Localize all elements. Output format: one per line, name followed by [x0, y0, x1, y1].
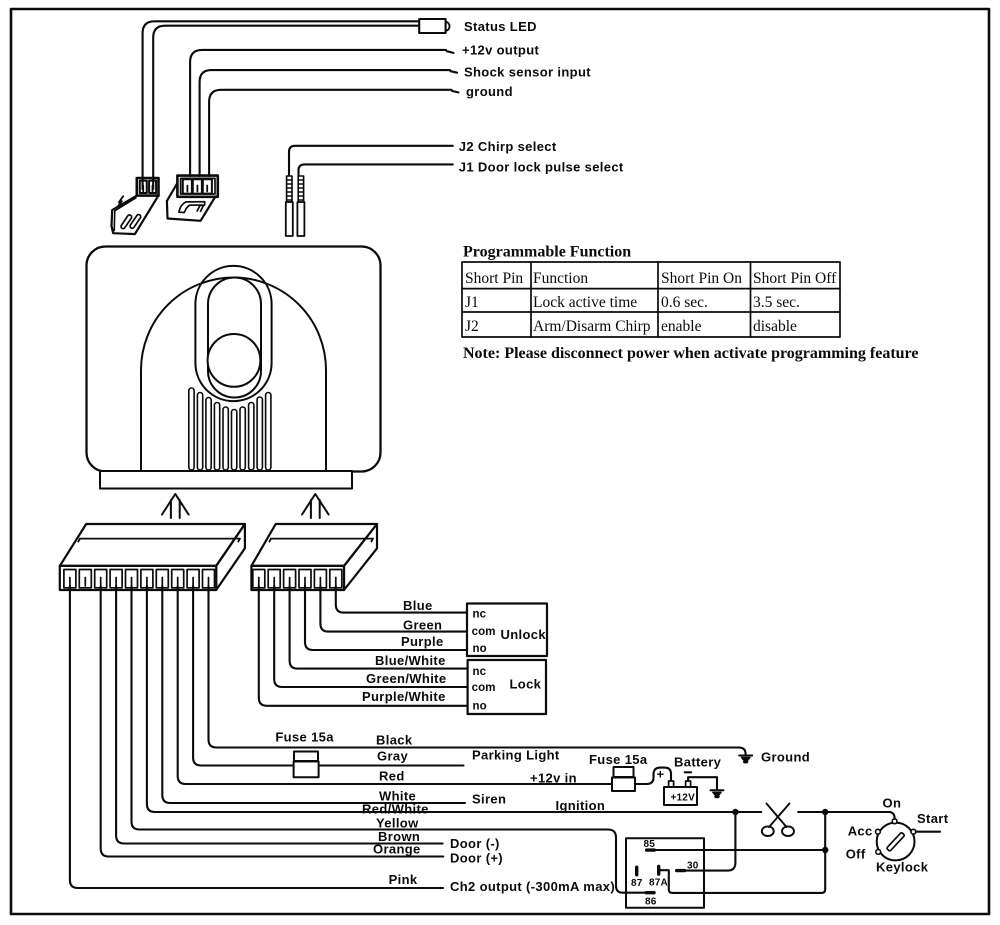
svg-text:J2: J2	[465, 318, 479, 335]
svg-text:Ignition: Ignition	[556, 798, 606, 813]
wire J2 select	[289, 146, 453, 175]
siren band inner edge	[208, 278, 261, 398]
relay box Unlock	[467, 604, 547, 657]
wire battery negative	[688, 777, 717, 790]
connector block CN2 6-pin	[251, 524, 377, 590]
svg-text:Lock: Lock	[510, 676, 542, 691]
svg-text:Unlock: Unlock	[501, 627, 547, 642]
svg-text:Note: Please disconnect power: Note: Please disconnect power when activ…	[463, 345, 918, 362]
svg-text:Short Pin: Short Pin	[465, 270, 523, 287]
wire 30 to ignition	[686, 812, 735, 871]
wire black	[209, 586, 746, 755]
wire blue	[336, 586, 467, 613]
svg-text:nc: nc	[473, 609, 487, 621]
svg-text:J1 Door lock pulse select: J1 Door lock pulse select	[459, 160, 624, 175]
wire J1 select	[299, 164, 453, 175]
svg-text:Status LED: Status LED	[464, 19, 537, 34]
connector P2 3-pin plug	[167, 176, 218, 221]
svg-text:Function: Function	[533, 270, 588, 287]
siren unit housing	[87, 247, 381, 472]
relay box main	[626, 838, 704, 908]
siren grill stripes	[189, 388, 271, 470]
fuse F2 15a	[612, 767, 635, 791]
wire ground lead	[209, 90, 458, 176]
svg-text:J1: J1	[465, 294, 479, 311]
battery 12V	[664, 781, 697, 805]
wire white	[162, 586, 465, 803]
svg-text:Blue: Blue	[403, 598, 433, 613]
wire blue/white	[290, 586, 468, 669]
svg-text:Ch2 output (-300mA max): Ch2 output (-300mA max)	[450, 879, 615, 894]
wire 85 to junction	[656, 849, 825, 851]
svg-text:Siren: Siren	[472, 792, 506, 807]
siren base bar	[100, 471, 352, 489]
svg-text:Green/White: Green/White	[366, 671, 446, 686]
svg-text:Battery: Battery	[674, 755, 722, 770]
svg-text:Purple/White: Purple/White	[362, 689, 446, 704]
svg-text:Short Pin Off: Short Pin Off	[753, 270, 837, 287]
connector P1 2-pin plug	[112, 178, 159, 234]
siren band outer edge	[195, 266, 271, 401]
relay pin 87A	[657, 865, 660, 876]
svg-text:nc: nc	[473, 666, 487, 678]
svg-text:Keylock: Keylock	[876, 860, 929, 875]
svg-text:+12v in: +12v in	[530, 771, 577, 786]
wire yellow	[132, 586, 646, 893]
wire 87A stub	[661, 869, 669, 871]
svg-text:Start: Start	[917, 811, 949, 826]
svg-text:Parking Light: Parking Light	[472, 748, 560, 763]
svg-text:Black: Black	[376, 733, 413, 748]
svg-text:Gray: Gray	[377, 749, 408, 764]
svg-text:Orange: Orange	[373, 842, 421, 857]
svg-text:87: 87	[631, 878, 643, 889]
wire gray	[193, 586, 463, 766]
relay pin 86	[645, 891, 656, 894]
svg-text:Pink: Pink	[389, 872, 418, 887]
svg-text:Programmable Function: Programmable Function	[463, 244, 631, 261]
svg-text:no: no	[473, 701, 487, 713]
svg-text:com: com	[472, 626, 496, 638]
svg-text:30: 30	[687, 861, 699, 872]
relay pin 30	[675, 869, 686, 872]
svg-text:Door (+): Door (+)	[450, 851, 503, 866]
arrow right	[302, 494, 329, 518]
svg-text:87A: 87A	[649, 878, 668, 889]
junction dot 85	[822, 847, 828, 853]
svg-text:Shock sensor input: Shock sensor input	[464, 65, 591, 80]
svg-text:85: 85	[644, 839, 656, 850]
relay pin 87	[635, 866, 638, 877]
wire status LED cathode	[153, 26, 419, 189]
wire green/white	[274, 586, 467, 687]
svg-text:Off: Off	[846, 847, 866, 862]
svg-text:Acc: Acc	[848, 824, 873, 839]
siren speaker circle	[208, 334, 261, 387]
wire ignition to keylock	[798, 812, 894, 819]
wire status LED anode	[143, 21, 420, 189]
svg-text:Short Pin On: Short Pin On	[661, 270, 742, 287]
wire red/white ignition	[147, 586, 761, 812]
ground symbol main	[739, 756, 752, 764]
wire purple/white	[259, 586, 468, 706]
svg-text:3.5 sec.: 3.5 sec.	[753, 294, 800, 311]
wire shock sensor input	[200, 70, 457, 176]
wire red	[178, 586, 671, 784]
svg-text:enable: enable	[661, 318, 702, 335]
jumper J2 pin	[286, 176, 293, 236]
svg-text:On: On	[883, 796, 902, 811]
ground symbol battery	[711, 790, 724, 798]
svg-text:J2 Chirp select: J2 Chirp select	[459, 139, 557, 154]
svg-text:Ground: Ground	[761, 750, 810, 765]
svg-text:com: com	[472, 682, 496, 694]
svg-text:Red/White: Red/White	[362, 802, 429, 817]
svg-text:+12v output: +12v output	[462, 43, 539, 58]
svg-text:Blue/White: Blue/White	[375, 653, 446, 668]
svg-text:Arm/Disarm Chirp: Arm/Disarm Chirp	[533, 318, 651, 335]
svg-text:Fuse 15a: Fuse 15a	[589, 752, 648, 767]
siren outer arch	[141, 278, 326, 471]
scissors cut mark	[762, 804, 794, 837]
wire brown	[116, 586, 443, 844]
wire start terminal	[916, 831, 940, 833]
wire pink	[70, 586, 443, 888]
fuse F1 15a	[294, 752, 319, 778]
junction dot ignition-keylock	[822, 809, 828, 815]
junction dot ignition-30	[732, 809, 738, 815]
svg-text:Purple: Purple	[401, 634, 444, 649]
svg-text:Fuse 15a: Fuse 15a	[275, 730, 334, 745]
wire purple	[305, 586, 467, 650]
svg-text:+12V: +12V	[671, 792, 696, 803]
connector block CN1 10-pin	[60, 524, 245, 590]
wire orange	[101, 586, 444, 857]
svg-text:no: no	[473, 643, 487, 655]
wire +12v output	[190, 50, 453, 176]
svg-text:Door (-): Door (-)	[450, 836, 500, 851]
svg-text:ground: ground	[466, 84, 513, 99]
svg-text:Green: Green	[403, 617, 442, 632]
LED status lamp	[419, 19, 449, 33]
relay box Lock	[468, 660, 546, 714]
relay pin 85	[645, 848, 656, 851]
jumper J1 pin	[297, 176, 304, 236]
wire keylock branch to relay	[669, 812, 825, 893]
wire green	[320, 586, 467, 632]
svg-text:0.6 sec.: 0.6 sec.	[661, 294, 708, 311]
svg-text:+: +	[657, 767, 665, 782]
arrow left	[162, 494, 189, 518]
svg-text:disable: disable	[753, 318, 797, 335]
svg-text:Red: Red	[379, 769, 405, 784]
svg-text:86: 86	[645, 897, 657, 908]
svg-text:Lock active time: Lock active time	[533, 294, 637, 311]
keylock switch	[876, 819, 916, 861]
